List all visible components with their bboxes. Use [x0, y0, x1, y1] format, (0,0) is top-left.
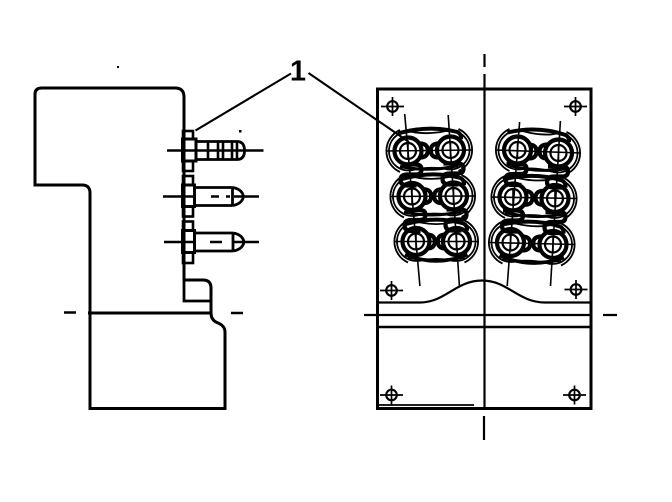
unit R2 outline [494, 178, 519, 217]
unit R3 outer flank arcs [489, 222, 503, 264]
unit L3 outline [397, 222, 422, 261]
unit L2 bores [399, 183, 426, 210]
bolt 2 centerline [163, 195, 259, 198]
unit R3 crosshair line [489, 243, 576, 245]
unit L3 bottom band [405, 255, 468, 262]
plate bottom edge double line [378, 404, 474, 406]
unit R2 outer flank arcs [491, 176, 505, 218]
left view horizontal centerline dashes [64, 311, 243, 314]
plate vertical centerline [483, 54, 486, 440]
bolt 2 bullet tip [233, 188, 244, 206]
bolt 1 top notch [183, 131, 193, 139]
unit L2 crosshair line [390, 195, 476, 198]
unit L3 top band [406, 220, 467, 231]
unit L1 crosshair line [386, 150, 473, 151]
unit L1 clamp claws [420, 144, 428, 158]
unit R3 clamp claws [522, 237, 530, 251]
unit R3 bottom band [503, 258, 562, 262]
leader line left [196, 74, 292, 131]
unit L3 clamp claws [427, 235, 435, 249]
unit L3 bottom band [408, 257, 465, 260]
left group column lines [405, 114, 460, 286]
bolt 1 head [183, 139, 197, 161]
svg-text:1: 1 [290, 56, 306, 88]
bolt 3 shaft [195, 233, 234, 251]
unit L1 bores [395, 138, 422, 165]
scan speck [239, 130, 242, 133]
bolt 2 top notch [183, 176, 193, 185]
bolt 2 head [183, 185, 195, 207]
unit L2 bottom band [404, 212, 462, 215]
unit R1 outer flank arcs [496, 129, 510, 171]
unit L3 outer flank arcs [394, 221, 408, 263]
plate mid line [378, 326, 592, 328]
unit R1 crosshair line [496, 150, 581, 153]
hole mid-left [380, 281, 403, 300]
bolt 1 bottom notch [183, 161, 193, 171]
unit R1 bores [504, 137, 531, 164]
unit R2 clamp claws [525, 191, 533, 205]
unit R2 bores [500, 184, 527, 211]
bolt 3 bullet tip [233, 233, 244, 251]
unit R2 bottom band [505, 213, 563, 217]
unit R2 crosshair line [491, 197, 577, 199]
unit L3 bores [403, 228, 430, 255]
bolt 1 centerline [167, 149, 264, 152]
unit L1 top band [398, 129, 461, 139]
unit R3 bottom band [500, 256, 565, 264]
serpentine lines left group [401, 165, 422, 186]
hole bottom-right [563, 386, 586, 405]
unit L2 outline [393, 177, 418, 216]
unit L3 crosshair line [394, 241, 479, 243]
bolt 2 bottom notch [183, 207, 193, 217]
unit R3 bores [497, 229, 524, 256]
bump curve [378, 281, 592, 303]
unit L2 clamp claws [423, 189, 431, 203]
hole bottom-left [380, 386, 403, 405]
lower block top edge [88, 312, 212, 315]
bolt 1 shaft [196, 142, 237, 160]
right group column lines [507, 121, 560, 286]
unit R3 outline [491, 223, 516, 262]
hole mid-right [565, 280, 588, 299]
bolt 2 shaft [195, 188, 233, 206]
hole top-left [381, 97, 404, 116]
bolt 1 thread bands [208, 142, 237, 160]
unit L2 outer flank arcs [390, 176, 404, 218]
unit L2 top band [402, 174, 464, 185]
unit R3 top band [501, 222, 564, 234]
unit L1 bottom band [400, 166, 459, 170]
unit L1 outline [389, 132, 414, 171]
unit R1 top band [508, 130, 570, 142]
leader line right [309, 73, 410, 142]
bolt 3 top notch [183, 222, 193, 231]
serpentine lines right group [506, 164, 527, 185]
plate outline [378, 89, 592, 409]
unit L1 outer flank arcs [386, 130, 400, 172]
bolt 3 head [183, 231, 195, 253]
left view body outline [35, 88, 225, 409]
hole top-right [564, 97, 587, 116]
bolt 3 bottom notch [183, 253, 193, 264]
bolt 1 rounded cap [237, 142, 245, 160]
unit R2 top band [503, 176, 566, 188]
unit R1 outline [498, 131, 523, 170]
bolt 3 centerline [164, 241, 259, 244]
plate horizontal centerline [364, 314, 617, 316]
scan speck 2 [117, 66, 119, 68]
step lower line [184, 280, 211, 301]
unit R1 bottom band [510, 166, 567, 171]
unit R1 clamp claws [529, 145, 537, 159]
